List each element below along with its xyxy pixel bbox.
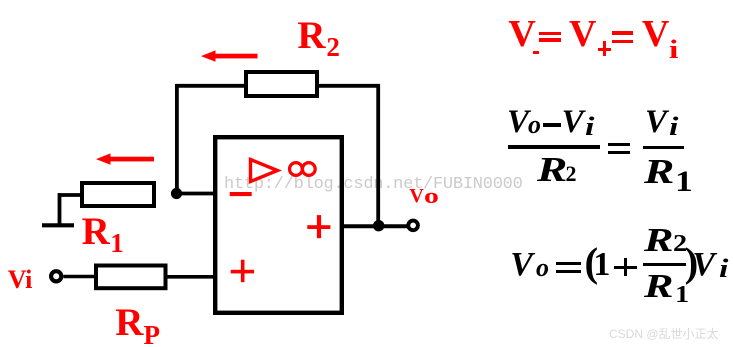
current arrow above R2 <box>201 50 258 61</box>
wire: node to op-amp inverting input <box>176 192 215 196</box>
ground <box>42 223 74 227</box>
op-amp output polarity label: plus <box>307 215 330 238</box>
wire: RP to op-amp non-inverting input <box>166 275 216 279</box>
label R1 <box>82 212 110 251</box>
resistor R1 <box>82 183 154 206</box>
node: output junction <box>373 220 384 231</box>
op-amp gain symbol: triangle <box>251 160 278 182</box>
wire: feedback top horizontal right segment <box>315 84 380 88</box>
resistor RP <box>96 266 166 289</box>
wire: feedback right vertical <box>376 84 380 227</box>
op-amp gain symbol: infinity <box>290 163 316 176</box>
resistor R2 <box>246 72 317 96</box>
wire: Vi terminal to RP <box>64 275 99 279</box>
label Vi <box>8 267 32 293</box>
op-amp inverting input label: minus <box>230 192 252 196</box>
watermark: http://blog.csdn.net/FUBIN0000 <box>224 176 523 193</box>
node: inverting input junction <box>171 188 182 199</box>
equation 1: V- = V+ = Vi <box>508 15 535 53</box>
wire: feedback left vertical <box>175 84 179 195</box>
wire: feedback top horizontal left segment <box>175 84 248 88</box>
equation 3: Vo = (1 + R2/R1)Vi <box>510 248 533 282</box>
label RP <box>115 303 143 342</box>
watermark: CSDN @乱世小正太 <box>609 328 719 340</box>
op-amp U1 body <box>215 137 342 313</box>
terminal: Vi input <box>51 271 61 281</box>
current arrow above R1 <box>96 153 154 164</box>
terminal: Vo output <box>408 221 418 231</box>
label R2 <box>297 16 325 55</box>
equation 2: (Vo-Vi)/R2 = Vi/R1 <box>507 106 529 139</box>
op-amp non-inverting input label: plus <box>231 260 254 283</box>
label Vo <box>409 186 423 206</box>
wire: R1 to ground stub <box>58 193 82 225</box>
wire: op-amp output <box>343 224 409 228</box>
